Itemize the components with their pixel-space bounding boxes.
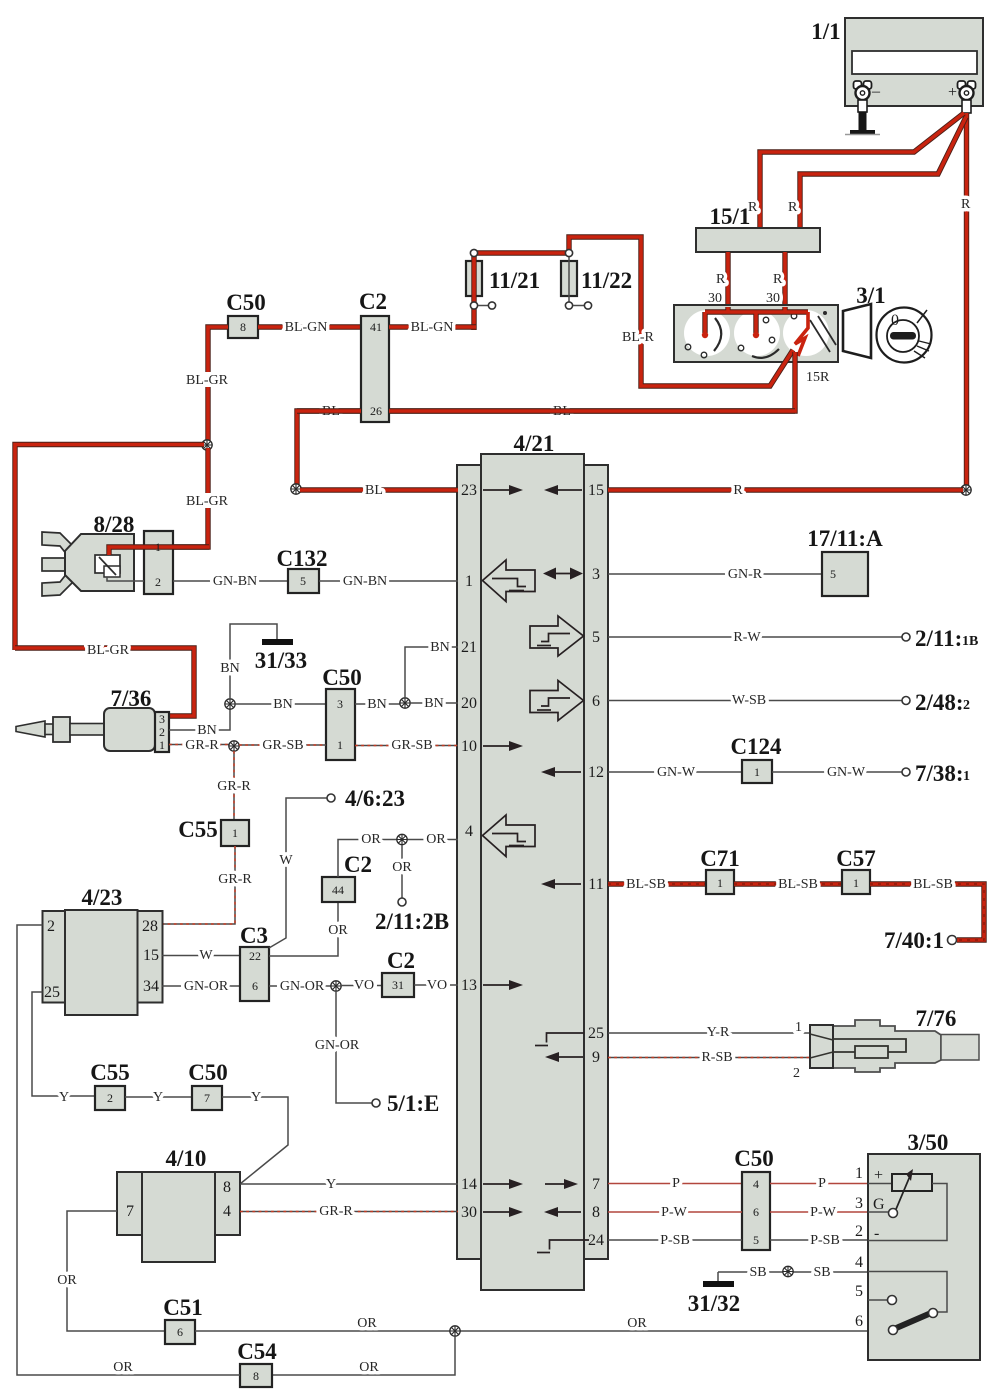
4/21 internal arrow pin 10 [483,741,523,751]
svg-text:8: 8 [223,1179,231,1196]
wire P-SB pin 24 to C50-5 [608,1233,742,1248]
svg-text:1: 1 [754,765,760,779]
4/21 internal arrow pin 15 [544,485,582,495]
wire BL-SB pin 11 to C71 [608,877,706,892]
svg-text:BN: BN [367,697,386,712]
svg-text:1: 1 [232,826,238,840]
connector C50 pins 4/6/5 (dashboard) [734,1146,774,1250]
wire W C3-22 diagonal up to 4/6:23 [269,798,327,948]
wire P-W C50-6 to 3/50 pin 3 [770,1205,868,1220]
svg-text:GN-BN: GN-BN [213,574,257,589]
svg-text:3: 3 [337,697,343,711]
terminal 2/48:2 [902,690,970,715]
svg-text:R: R [788,200,798,215]
connector C2 pin 31 [382,948,415,997]
wire GN-BN C132 to pin 1 [319,574,458,589]
svg-text:31/33: 31/33 [255,648,307,673]
svg-text:2/11:: 2/11: [915,626,962,651]
control unit 4/23 [43,885,163,1015]
wire GR-R C55 down to 4/23 pin 28 [162,846,254,924]
svg-text:GR-SB: GR-SB [262,738,303,753]
svg-text:GR-R: GR-R [217,779,251,794]
fuse 11/22 [561,249,632,309]
svg-text:4/21: 4/21 [514,431,555,456]
svg-text:GN-OR: GN-OR [315,1038,360,1053]
svg-text:3: 3 [592,566,600,583]
terminal 7/38:1 [902,761,970,786]
wire OR junction down to C54 row [272,1336,455,1375]
svg-text:11/22: 11/22 [581,268,632,293]
junction OR bottom [450,1326,460,1336]
wire OR C3-22 right up to C2-44 [269,902,350,956]
ECU 4/21 central unit [457,431,608,1290]
connector C71 pin 1 [700,846,740,894]
svg-text:2/11:2B: 2/11:2B [375,909,449,934]
svg-text:OR: OR [57,1273,77,1288]
4/21 step symbol pin 24 [537,1240,589,1253]
wire R-SB pin 9 to 7/76 [608,1050,810,1081]
svg-text:5: 5 [300,574,306,588]
terminal 2/11:2B [375,898,449,934]
svg-text:C124: C124 [730,734,782,759]
svg-text:C2: C2 [387,948,415,973]
wire P pin 7 to C50-4 [608,1176,742,1191]
svg-text:C51: C51 [163,1295,203,1320]
svg-text:C55: C55 [178,817,218,842]
svg-text:7/40:1: 7/40:1 [884,928,944,953]
svg-text:26: 26 [370,404,382,418]
4/21 internal arrow pin 12 [541,767,581,777]
svg-text:1: 1 [155,540,161,554]
svg-text:R: R [961,197,971,212]
instrument 3/50 [855,1130,980,1360]
connector C132 pin 5 [276,546,327,593]
svg-text:C55: C55 [90,1060,130,1085]
wire GR-R junction3 down to C55 [216,751,253,820]
svg-text:30: 30 [461,1204,477,1221]
svg-text:30: 30 [708,291,722,306]
connector C55 pin 1 [178,817,249,846]
wire BN 7/36 pin2 to junction [169,704,230,738]
svg-text:P-W: P-W [810,1205,836,1220]
svg-text:GN-OR: GN-OR [280,979,325,994]
svg-text:BN: BN [220,661,239,676]
svg-text:11/21: 11/21 [489,268,540,293]
switch [868,1272,947,1313]
svg-text:1/1: 1/1 [811,19,840,44]
svg-text:BL-SB: BL-SB [913,877,953,892]
svg-text:OR: OR [113,1360,133,1375]
svg-text:OR: OR [426,832,446,847]
4/21 bidirectional arrows pin 3 [543,568,583,580]
svg-text:C2: C2 [359,289,387,314]
wire GN-R pin 3 to 17/11:A [608,567,822,582]
connector 17/11:A [807,526,883,596]
wire R 15/1 to ignition 30 (left) [708,252,728,307]
svg-text:1: 1 [795,1020,802,1035]
svg-text:15/1: 15/1 [710,204,751,229]
svg-text:5: 5 [855,1283,863,1300]
svg-text:R-W: R-W [733,630,761,645]
svg-text:31: 31 [392,978,404,992]
wire GR-R 7/36 pin1 to junction3 [169,738,232,753]
svg-text:21: 21 [461,639,477,656]
svg-text:C57: C57 [836,846,876,871]
wire BN junction to C50-3 [235,697,326,712]
wire Y C55-2 to C50-7 [125,1090,192,1105]
svg-text:+: + [948,84,957,101]
control unit 4/10 [117,1146,240,1262]
key cylinder symbol [877,308,932,363]
contact details circle 2 [738,345,744,351]
wire BL ignition to C2-26 and junction [297,352,795,487]
ground 31/32 [688,1272,740,1316]
svg-text:BL-SB: BL-SB [778,877,818,892]
svg-text:Y: Y [59,1090,69,1105]
fuse box 15/1 [696,204,820,252]
terminal 4/6:23 [327,786,405,811]
connector C124 pin 1 [730,734,782,783]
wire BN C50-3 to junction2 [355,697,400,712]
svg-text:1: 1 [159,738,165,752]
svg-text:BL-GN: BL-GN [285,320,328,335]
wire P C50-4 to 3/50 pin 1 [770,1176,868,1191]
svg-text:1: 1 [337,738,343,752]
svg-text:44: 44 [332,883,344,897]
4/21 internal arrow pin 30 [483,1207,523,1217]
junction OR [397,834,407,844]
rheostat [868,1183,892,1185]
svg-text:2: 2 [159,725,165,739]
svg-text:OR: OR [361,832,381,847]
wire GN-OR 4/23-34 to C3-6 [162,979,240,994]
wire BL-GR C50-8 down to junction [186,327,229,443]
junction GR [229,741,239,751]
svg-text:GN-OR: GN-OR [184,979,229,994]
svg-text:25: 25 [588,1025,604,1042]
svg-text:BL-R: BL-R [622,330,655,345]
svg-text:BN: BN [424,696,443,711]
svg-text:8/28: 8/28 [94,512,135,537]
svg-text:17/11:A: 17/11:A [807,526,883,551]
svg-text:BL-SB: BL-SB [626,877,666,892]
4/21 internal arrow pin 7 [545,1179,578,1189]
svg-text:41: 41 [370,320,382,334]
wire Y C50-7 down to 4/10 pin 8 [222,1090,288,1184]
battery negative terminal [854,81,882,100]
svg-text:3: 3 [855,1195,863,1212]
svg-text:9: 9 [592,1049,600,1066]
wire BL junction to pin 23 [300,483,458,498]
svg-text:1: 1 [855,1165,863,1182]
svg-text:6: 6 [252,979,258,993]
red 15R hook [795,312,808,356]
antenna connector 7/76 [810,1006,979,1072]
svg-text:30: 30 [766,291,780,306]
wire P-SB C50-5 to 3/50 pin 2 [770,1233,868,1248]
svg-text:8: 8 [240,320,246,334]
junction BN [225,699,235,709]
4/21 signal arrow pin 4 [483,815,536,857]
svg-text:4/23: 4/23 [82,885,123,910]
svg-text:BL-GR: BL-GR [87,643,130,658]
4/21 pin numbers left [461,482,477,1221]
4/21 signal arrow pin 1 [483,560,536,602]
wire R battery to junction (vertical right) [961,113,971,490]
svg-text:GR-SB: GR-SB [391,738,432,753]
svg-text:12: 12 [588,764,604,781]
4/21 internal arrow pin 14 [483,1179,523,1189]
svg-text:C71: C71 [700,846,740,871]
connector C50 pins 3/1 (engine bay) [322,665,362,760]
svg-text:GN-R: GN-R [728,567,763,582]
svg-text:C54: C54 [237,1339,277,1364]
svg-text:15: 15 [143,947,159,964]
svg-text:22: 22 [249,949,261,963]
connector C55 pin 2 [90,1060,130,1110]
wire BL-GN C2-41 to fuse 11/21 [389,320,476,335]
svg-text:4/6:23: 4/6:23 [345,786,405,811]
svg-text:R: R [733,483,743,498]
4/21 signal arrow pin 5 [530,616,584,656]
svg-text:3/50: 3/50 [908,1130,949,1155]
svg-text:5: 5 [753,1233,759,1247]
svg-text:P-W: P-W [661,1205,687,1220]
svg-text:4: 4 [465,823,473,840]
svg-text:P-SB: P-SB [660,1233,690,1248]
svg-text:BN: BN [273,697,292,712]
wire BN junction2 up to pin 21 [405,640,458,698]
svg-text:OR: OR [627,1316,647,1331]
4/21 internal arrow pin 23 [483,485,523,495]
svg-text:0: 0 [891,312,899,329]
svg-text:14: 14 [461,1176,477,1193]
wire OR C51-6 to 3/50 pin 6 [195,1316,868,1331]
red rail from 30 pins [705,307,808,333]
svg-text:BN: BN [197,723,216,738]
svg-text:P-SB: P-SB [810,1233,840,1248]
svg-text:28: 28 [142,918,158,935]
wire BN junction2 to pin 20 [410,696,458,711]
svg-text:VO: VO [427,978,447,993]
key trapezoid [843,304,871,358]
junction on R wire at right [961,485,971,495]
svg-text:23: 23 [461,482,477,499]
wire BL-R fuse rail to ignition [474,237,793,386]
wire BL-GR junction down to 8/28 pin 1 [173,448,229,547]
wire GN-BN 8/28 to C132 [173,574,288,589]
svg-text:C132: C132 [276,546,327,571]
wire OR 4/10-7 down to C51-6 [55,1211,165,1331]
svg-text:Y: Y [153,1090,163,1105]
svg-text:15R: 15R [806,370,830,385]
svg-text:C2: C2 [344,852,372,877]
svg-text:P: P [672,1176,680,1191]
svg-text:34: 34 [143,978,159,995]
wire OR C2-44 up to junction and pin 4 [338,832,458,877]
svg-text:2: 2 [107,1091,113,1105]
svg-text:20: 20 [461,695,477,712]
svg-text:7/76: 7/76 [916,1006,957,1031]
svg-text:Y: Y [326,1177,336,1192]
wire GN-OR C3-6 to junction4 [269,979,334,994]
connector C3 pins 22/6 [240,923,269,1001]
svg-text:24: 24 [588,1232,604,1249]
wire OR C54-8 left and up to 4/23 pin 2 [17,925,240,1375]
wire W 4/23-15 to C3-22 [162,948,240,963]
wire Y 4/23-25 down to C55-2 [32,992,95,1105]
glow plug 7/36 [16,686,169,752]
wire BN junction up to ground 31/33 [219,624,277,699]
svg-text:4: 4 [753,1177,759,1191]
svg-text:7: 7 [126,1203,134,1220]
4/21 internal arrow pin 13 [483,980,523,990]
svg-text:6: 6 [855,1313,863,1330]
svg-text:2: 2 [793,1066,800,1081]
wire W-SB pin 6 to 2/48:2 [608,693,902,708]
svg-text:SB: SB [749,1265,766,1280]
wire BL-SB C57 to 7/40:1 [870,877,984,940]
wire GN-W C124 to 7/38:1 [772,765,902,780]
svg-text:GR-R: GR-R [218,872,252,887]
wire Y 4/10-8 to pin 14 [240,1177,458,1192]
svg-text:C50: C50 [322,665,362,690]
terminal 2/11:1B [902,626,978,651]
svg-text:15: 15 [588,482,604,499]
svg-text:6: 6 [592,693,600,710]
wire BL C2-26 left segment [297,408,361,413]
svg-text:GR-R: GR-R [319,1204,353,1219]
svg-text:3: 3 [159,712,165,726]
connector C2 pin 44 [322,852,372,902]
wire GR-SB C50-1 to pin 10 [355,738,458,753]
svg-text:W: W [279,853,293,868]
svg-text:5: 5 [592,629,600,646]
svg-text:4: 4 [855,1254,863,1271]
svg-text:2: 2 [963,698,970,713]
svg-text:C50: C50 [188,1060,228,1085]
svg-text:OR: OR [328,923,348,938]
wire P-W pin 8 to C50-6 [608,1205,742,1220]
svg-text:R: R [716,272,726,287]
wire BL-GN C50 to C2 [258,320,361,335]
svg-text:C50: C50 [734,1146,774,1171]
svg-text:OR: OR [357,1316,377,1331]
4/21 signal arrow pin 6 [530,681,584,721]
svg-text:2/48:: 2/48: [915,690,964,715]
battery 1/1 [811,18,983,106]
connector C51 pin 6 [163,1295,203,1344]
wire Y-R pin 25 to 7/76 [608,1020,810,1040]
svg-text:Y-R: Y-R [707,1025,730,1040]
4/21 internal arrow pin 9 [545,1052,583,1062]
battery positive terminal [948,81,976,113]
svg-text:1: 1 [853,876,859,890]
svg-text:1: 1 [465,573,473,590]
svg-text:-: - [874,1225,879,1242]
junction on BL wire [291,484,301,494]
4/21 pin numbers right [588,482,604,1249]
wire OR junction down to 2/11:2B [390,845,414,898]
svg-text:1: 1 [717,876,723,890]
wire GN-W pin 12 to C124 [608,765,742,780]
svg-text:8: 8 [253,1369,259,1383]
svg-text:BL: BL [365,483,383,498]
svg-text:1: 1 [963,769,970,784]
svg-text:31/32: 31/32 [688,1291,740,1316]
connector C50 pin 8 [226,290,266,338]
svg-text:1B: 1B [962,634,978,649]
relay 8/28 [42,512,209,596]
svg-text:OR: OR [359,1360,379,1375]
svg-text:6: 6 [177,1325,183,1339]
contact details circle 3 [791,313,797,319]
wire GR-SB junction3 to C50-1 [239,738,326,753]
svg-text:+: + [874,1167,883,1184]
svg-text:7/38:: 7/38: [915,761,964,786]
wire R battery diagonal to 15/1 left pin [748,113,964,228]
svg-text:2: 2 [155,575,161,589]
wire VO junction4 to C2-31 [341,978,382,993]
wire BL-GR junction to far left and down [15,445,204,651]
svg-text:P: P [818,1176,826,1191]
connector C2 pins 41/26 [359,289,389,422]
svg-text:7/36: 7/36 [111,686,152,711]
wire BL-SB C71 to C57 [734,877,842,892]
svg-text:Y: Y [251,1090,261,1105]
wire GR-R 4/10-4 to pin 30 [240,1204,458,1219]
ground 31/33 [255,639,307,673]
svg-text:VO: VO [354,978,374,993]
svg-text:11: 11 [588,876,603,893]
svg-text:8: 8 [592,1204,600,1221]
wire GN-OR junction4 down to 5/1:E [315,991,372,1103]
wire VO C2-31 to pin 13 [414,978,458,993]
svg-text:7: 7 [592,1176,600,1193]
svg-text:GR-R: GR-R [185,738,219,753]
svg-text:C50: C50 [226,290,266,315]
ignition switch 3/1 [674,283,886,385]
svg-text:4: 4 [223,1203,231,1220]
4/21 internal arrow pin 11 [541,879,581,889]
wire R battery diagonal to 15/1 right pin [788,117,966,228]
svg-text:–: – [871,83,881,100]
svg-text:G: G [873,1196,885,1213]
junction BL-GR [202,440,212,450]
svg-text:BL-GR: BL-GR [186,494,229,509]
battery ground post [845,100,880,135]
svg-text:SB: SB [813,1265,830,1280]
wire BL-GR left bottom to 7/36 pin 3 [15,643,194,716]
svg-text:OR: OR [392,860,412,875]
wire SB ground to 3/50 pin 4 [718,1265,868,1280]
svg-text:GN-BN: GN-BN [343,574,387,589]
contact details circle 1 [685,344,691,350]
connector C57 pin 1 [836,846,876,894]
svg-text:BN: BN [430,640,449,655]
wire R 15/1 to ignition 30 (right) [766,252,785,307]
svg-text:10: 10 [461,738,477,755]
4/21 internal arrow pin 8 [544,1207,581,1217]
wire BL C2-26 right segment to ignition [389,408,795,413]
4/21 step symbol pin 25 [535,1033,584,1046]
svg-text:7: 7 [204,1091,210,1105]
svg-text:R-SB: R-SB [701,1050,732,1065]
svg-text:W: W [199,948,213,963]
svg-text:6: 6 [753,1205,759,1219]
svg-text:4/10: 4/10 [166,1146,207,1171]
wire R junction to pin 15 [608,483,963,498]
